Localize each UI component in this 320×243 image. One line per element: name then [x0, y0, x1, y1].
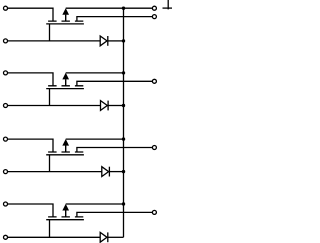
terminal J2A (left, gate-drive input 2 top): [4, 71, 8, 75]
terminal J3B (left, input 3 bottom): [4, 170, 8, 174]
wire (Q3 gate down to lower rail): [49, 155, 51, 172]
diode D1: [100, 36, 108, 46]
wire (terminal J2B to diode D2 anode): [8, 105, 101, 107]
wire (terminal J1A to Q1 drain contact): [8, 8, 53, 21]
wire (top-right stub, vertical): [167, 0, 169, 9]
terminal J3D (right, source output 3): [152, 146, 156, 150]
terminal J1A (left, gate-drive input 1 top): [4, 6, 8, 10]
junction (diode D1 cathode / bus): [122, 39, 125, 42]
wire (terminal J4A to Q4 drain contact): [8, 204, 53, 217]
wire (terminal J1B to diode D1 anode): [8, 40, 101, 42]
transistor Q2 (N-channel MOSFET): [46, 73, 84, 89]
wire (Q1 source to terminal J1D): [77, 17, 152, 22]
wire (terminal J3A to Q3 drain contact): [8, 139, 53, 152]
terminal J4B (left, input 4 bottom): [4, 235, 8, 239]
terminal J2B (left, input 2 bottom): [4, 104, 8, 108]
diode D4: [100, 232, 108, 242]
junction (diode D3 cathode / bus): [122, 170, 125, 173]
transistor Q1 (N-channel MOSFET): [46, 8, 84, 24]
wire (terminal J3B to diode D3 anode): [8, 171, 102, 173]
junction (body wire / bus, cell 2): [122, 71, 125, 74]
wire (diode D3 cathode to bus): [109, 171, 123, 173]
terminal J4D (right, source output 4): [152, 210, 156, 214]
transistor Q3 (N-channel MOSFET): [46, 139, 84, 155]
wire (Q2 body to bus): [66, 72, 124, 74]
terminal J3A (left, gate-drive input 3 top): [4, 137, 8, 141]
diode D2: [101, 101, 109, 111]
junction (body wire / bus, cell 4): [122, 202, 125, 205]
wire (Q3 source to terminal J3D): [77, 148, 152, 153]
terminal J2D (right, source output 2): [152, 79, 156, 83]
junction (diode D2 cathode / bus): [122, 104, 125, 107]
wire (Q3 body to bus): [66, 138, 124, 140]
wire (right vertical bus): [123, 8, 125, 237]
wire (Q4 body to bus): [66, 203, 124, 205]
junction (body wire / bus, cell 1): [122, 7, 125, 10]
wire (terminal J4B to diode D4 anode): [8, 236, 101, 238]
transistor Q4 (N-channel MOSFET): [46, 204, 84, 220]
wire (Q1 gate down to lower rail): [49, 24, 51, 41]
wire (diode D2 cathode to bus): [108, 105, 123, 107]
wire (Q4 source to terminal J4D): [77, 212, 152, 217]
terminal J1C (right, body node): [152, 6, 156, 10]
junction (body wire / bus, cell 3): [122, 137, 125, 140]
wire (Q4 gate down to lower rail): [49, 220, 51, 238]
wire (top-right stub, horizontal): [163, 7, 173, 9]
wire (diode D1 cathode to bus): [108, 40, 124, 42]
wire (Q1 body to bus and terminal J1C): [66, 7, 153, 9]
terminal J1D (right, source output 1): [152, 15, 156, 19]
terminal J4A (left, gate-drive input 4 top): [4, 202, 8, 206]
wire (terminal J2A to Q2 drain contact): [8, 73, 53, 86]
wire (Q2 gate down to lower rail): [49, 89, 51, 106]
wire (Q2 source to terminal J2D): [77, 81, 152, 86]
terminal J1B (left, input 1 bottom): [4, 39, 8, 43]
wire (diode D4 cathode to bus): [108, 236, 124, 238]
diode D3: [102, 167, 110, 177]
